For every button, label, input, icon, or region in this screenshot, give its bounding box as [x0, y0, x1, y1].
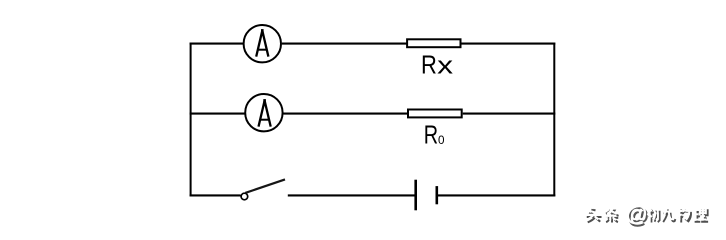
svg-text:x: x	[437, 52, 453, 80]
wire: bottom branch middle segment (switch to battery)	[288, 194, 416, 196]
wire: middle branch right segment	[463, 113, 556, 115]
wire: left vertical bus	[190, 43, 192, 197]
label Rx	[421, 51, 453, 80]
svg-text:0: 0	[438, 134, 445, 147]
svg-text:@: @	[625, 201, 647, 226]
ammeter A1 (top branch)	[244, 25, 281, 62]
label R0	[424, 120, 445, 149]
wire: right vertical bus	[553, 43, 555, 197]
wire: bottom branch right segment	[437, 194, 556, 196]
wire: top branch right segment	[462, 43, 556, 45]
watermark white top layer	[585, 201, 706, 226]
resistor R0	[408, 110, 462, 118]
watermark: 头条 @初九物理 (embossed white with gray shadow)	[585, 201, 708, 228]
switch S1 (open, pivot contact circle)	[241, 179, 285, 199]
wire: bottom branch left segment	[190, 194, 241, 196]
wire: middle branch middle segment	[283, 113, 408, 115]
svg-text:R: R	[424, 120, 438, 149]
wire: middle branch left segment	[190, 113, 245, 115]
wire: top branch left segment	[190, 43, 243, 45]
ammeter A2 (middle branch)	[245, 94, 282, 131]
battery B1 (cell: long and short plates)	[416, 180, 437, 211]
svg-text:R: R	[421, 51, 437, 80]
wire: top branch middle segment	[282, 43, 407, 45]
watermark shadow layer	[587, 203, 708, 228]
resistor Rx	[407, 39, 460, 47]
